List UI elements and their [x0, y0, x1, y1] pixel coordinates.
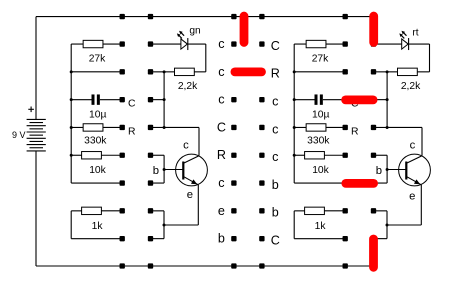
svg-text:2,2k: 2,2k	[401, 81, 421, 92]
svg-text:9 V: 9 V	[12, 130, 26, 140]
svg-text:gn: gn	[189, 25, 200, 36]
svg-text:C: C	[271, 39, 280, 53]
svg-text:1k: 1k	[315, 221, 327, 232]
svg-text:C: C	[217, 120, 226, 134]
svg-text:R: R	[271, 67, 280, 81]
svg-text:10k: 10k	[89, 165, 106, 176]
svg-text:C: C	[128, 99, 136, 110]
svg-text:c: c	[272, 122, 278, 136]
svg-text:rt: rt	[412, 28, 418, 39]
svg-text:c: c	[218, 93, 224, 107]
svg-text:R: R	[351, 126, 359, 137]
svg-text:10µ: 10µ	[89, 110, 106, 121]
svg-text:27k: 27k	[312, 54, 329, 65]
svg-text:2,2k: 2,2k	[178, 81, 198, 92]
svg-text:b: b	[272, 206, 279, 220]
svg-text:b: b	[218, 232, 225, 246]
svg-text:c: c	[410, 140, 416, 152]
svg-text:C: C	[271, 233, 280, 247]
svg-text:10k: 10k	[312, 165, 329, 176]
svg-text:e: e	[409, 191, 415, 203]
svg-text:330k: 330k	[84, 136, 107, 147]
svg-text:R: R	[217, 148, 226, 162]
svg-text:c: c	[218, 37, 224, 51]
svg-text:c: c	[272, 150, 278, 164]
svg-text:e: e	[218, 204, 225, 218]
svg-text:c: c	[218, 176, 224, 190]
svg-text:e: e	[187, 189, 193, 201]
svg-text:330k: 330k	[307, 136, 330, 147]
svg-text:R: R	[128, 126, 136, 137]
svg-text:b: b	[153, 165, 159, 177]
svg-text:1k: 1k	[92, 221, 104, 232]
svg-text:c: c	[218, 65, 224, 79]
svg-text:b: b	[272, 178, 279, 192]
svg-text:10µ: 10µ	[312, 110, 329, 121]
svg-text:b: b	[376, 165, 382, 177]
svg-text:27k: 27k	[89, 54, 106, 65]
svg-text:c: c	[272, 94, 278, 108]
svg-text:c: c	[183, 140, 189, 152]
